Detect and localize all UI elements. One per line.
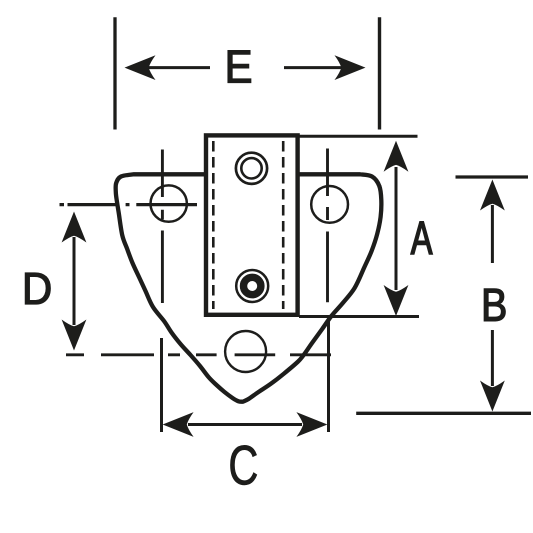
dimension A: top arrowhead [384,141,409,172]
shield-shaped mounting plate outline [116,174,382,401]
dimension C: arrow shaft [188,423,302,426]
label A [411,222,433,254]
horizontal dash-dot centerline through bottom hole [66,353,331,356]
hidden line (right) inside hinge block [282,141,285,309]
dimension A: top extension line [299,135,418,138]
dimension A: arrow shaft [395,167,398,290]
dimension E: left arrowhead [125,55,156,80]
dimension E: right extension line [378,17,381,129]
dimension D: bottom arrowhead [62,320,87,351]
label E [228,51,251,83]
dimension B: lower arrow shaft [491,330,494,386]
dimension C: left arrowhead [163,412,194,437]
hinge block body (white fill occludes plate edge behind it) [206,135,298,314]
horizontal dash-dot centerline through left hole [60,203,198,206]
dimension C: right extension line [327,319,330,432]
dimension A: bottom extension line [299,315,419,318]
bottom plate hole [225,331,266,372]
dimension E: left extension line [113,17,116,129]
dimension B: bottom extension line [356,412,531,415]
dimension C: right arrowhead [296,412,327,437]
label D [25,273,50,304]
vertical dash-dot centerline through left hole [161,150,164,304]
dimension B: top arrowhead [480,180,505,211]
left plate hole [151,185,187,221]
right plate hole [311,186,348,223]
vertical dash-dot centerline through right hole [326,149,329,303]
dimension E: right arrow shaft [284,66,343,69]
hinge block top hole (double ring) [236,153,267,184]
dimension B: top extension line [456,175,529,178]
label C [231,445,257,485]
label B [484,289,505,321]
dimension D: top arrowhead [62,212,87,243]
dimension E: left arrow shaft [146,66,210,69]
dimension A: bottom arrowhead [384,285,409,316]
dimension B: upper arrow shaft [491,205,494,263]
hidden line (left) inside hinge block [212,141,215,309]
dimension E: right arrowhead [335,55,366,80]
dimension D: arrow shaft [73,237,76,325]
hinge block bottom hole (bold inner ring) [236,270,268,302]
dimension C: left extension line [160,338,163,432]
dimension B: bottom arrowhead [480,381,505,412]
